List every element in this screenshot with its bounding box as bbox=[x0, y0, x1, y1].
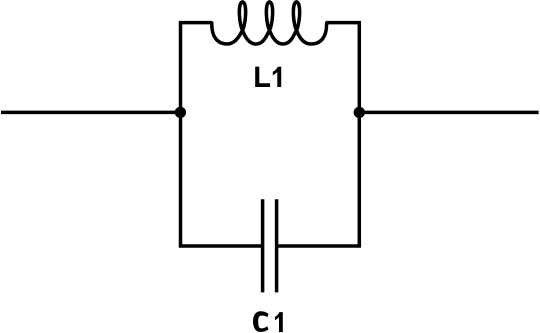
wire right output lead bbox=[359, 111, 538, 115]
label L1 bbox=[255, 67, 281, 87]
inductor L1 bbox=[210, 2, 328, 44]
capacitor C1 plate left bbox=[261, 199, 265, 292]
wire left input lead bbox=[1, 111, 181, 115]
label C1 bbox=[253, 311, 283, 332]
capacitor C1 plate right bbox=[275, 199, 279, 292]
wire right branch (top-right, right vertical, bottom-right) bbox=[278, 23, 359, 246]
node right junction bbox=[354, 107, 365, 118]
node left junction bbox=[175, 107, 186, 118]
wire left branch (top-left, left vertical, bottom-left) bbox=[181, 23, 262, 246]
